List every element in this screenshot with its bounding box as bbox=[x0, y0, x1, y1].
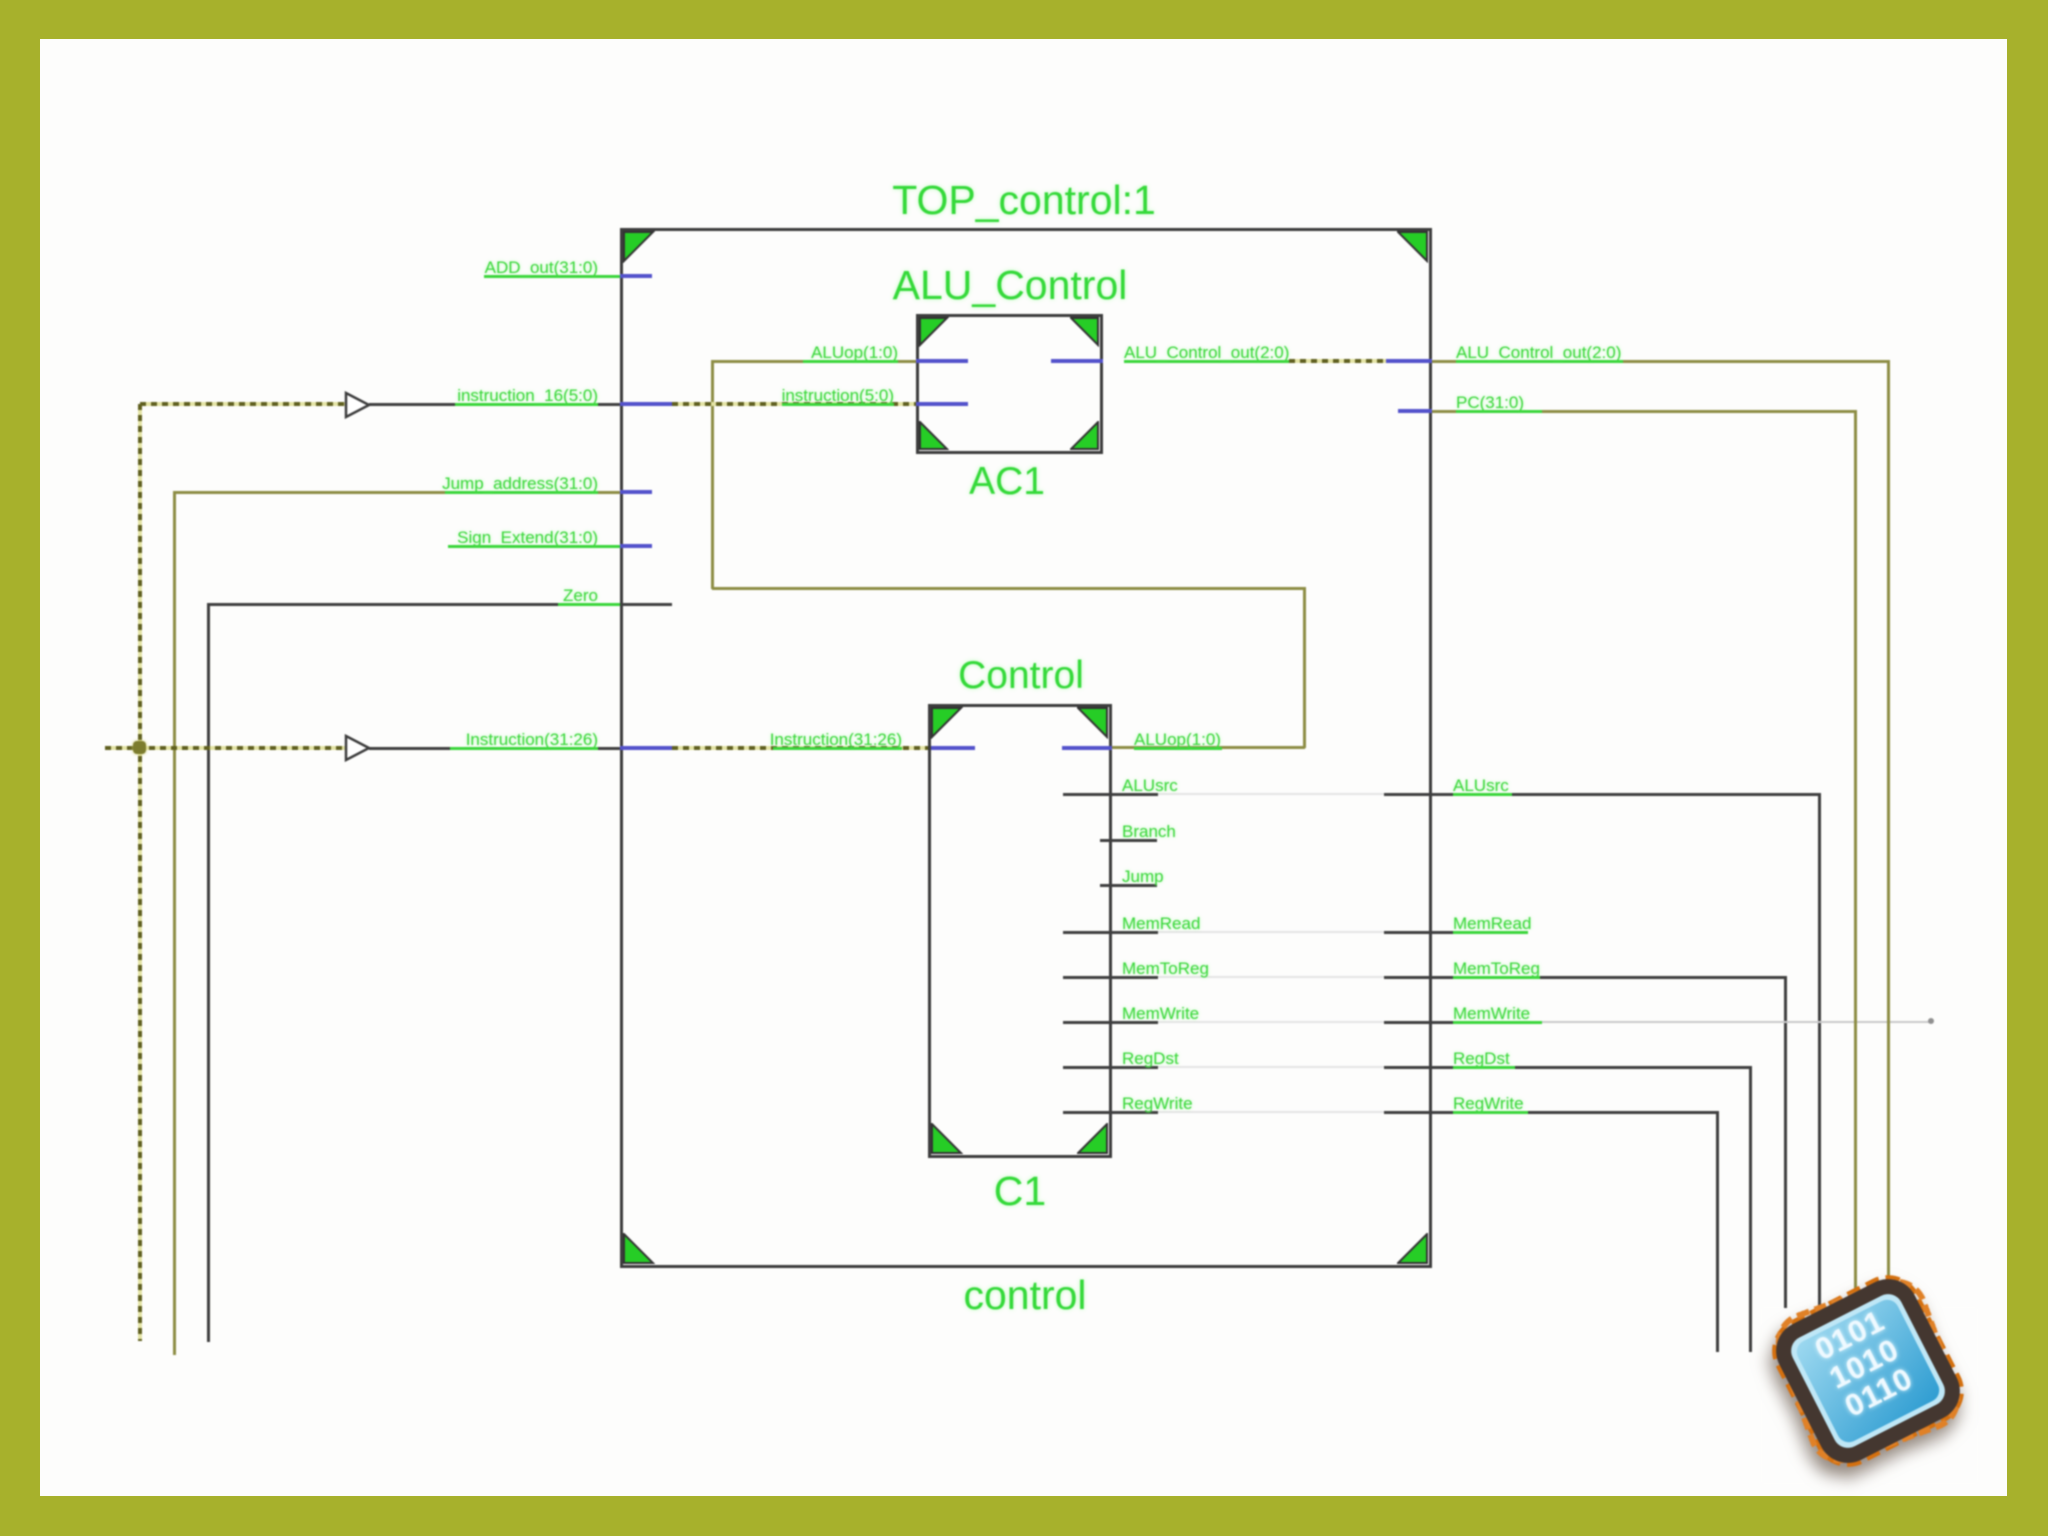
wire ALUop middle horizontal bbox=[712, 587, 1305, 590]
wire ALUop left vertical bbox=[711, 360, 714, 589]
wire Zero horizontal bbox=[207, 603, 620, 606]
net underline Jump_address bbox=[445, 491, 598, 494]
wire ALUop to C1 bbox=[1112, 746, 1305, 749]
label RegWrite at C1 bbox=[1122, 1094, 1193, 1114]
net underline ALUop near AC1 bbox=[803, 360, 898, 363]
wire RegDst vertical drop bbox=[1749, 1066, 1752, 1352]
wire dashed instruction_16 outer bbox=[140, 402, 345, 406]
logo chip bbox=[1770, 1273, 1966, 1469]
corner marker TOP top-right bbox=[1397, 231, 1429, 263]
wire MemRead right stub bbox=[1384, 931, 1477, 934]
pin stub C1 MemToReg bbox=[1063, 976, 1158, 979]
label Sign_Extend(31:0) bbox=[457, 528, 598, 548]
wire Instruction(31:26) outer solid bbox=[369, 747, 620, 750]
wire thin net RegWrite middle bbox=[1158, 1111, 1384, 1113]
corner marker TOP bottom-right bbox=[1397, 1233, 1429, 1265]
wire ALUsrc vertical drop bbox=[1818, 793, 1821, 1315]
label ALUsrc at C1 bbox=[1122, 776, 1178, 796]
wire ALUsrc right run bbox=[1384, 793, 1819, 796]
label Jump at C1 bbox=[1122, 867, 1164, 887]
arrow port Instruction(31:26) bbox=[344, 734, 372, 762]
label ALU_Control_out(2:0) outer bbox=[1456, 343, 1621, 363]
net underline Zero bbox=[558, 603, 620, 606]
wire MemToReg vertical drop bbox=[1784, 976, 1787, 1323]
pin stub C1 Jump bbox=[1100, 884, 1157, 887]
pin blue TOP PC bbox=[1398, 409, 1432, 413]
corner marker AC1 top-right bbox=[1070, 317, 1100, 347]
wire PC outside bbox=[1432, 410, 1856, 413]
pin blue C1 Instruction(31:26) bbox=[931, 746, 975, 750]
arrow port instruction_16 bbox=[344, 391, 372, 419]
net underline Sign_Extend bbox=[448, 545, 620, 548]
pin blue AC1 ALUop bbox=[916, 359, 968, 363]
wire RegDst right run bbox=[1384, 1066, 1750, 1069]
wire ALU_Control_out vertical drop bbox=[1887, 360, 1890, 1310]
wire MemWrite thin extension bbox=[1477, 1021, 1933, 1023]
block Control C1 outline bbox=[928, 704, 1112, 1158]
wire thin net ALUsrc middle bbox=[1158, 793, 1384, 795]
wire dashed ALU_Control_out inner bbox=[1289, 359, 1386, 363]
label MemRead right bbox=[1453, 914, 1531, 934]
label Instruction(31:26) outer bbox=[466, 730, 598, 750]
wire dashed Instruction(31:26) inner bbox=[672, 746, 928, 750]
label ALU_Control_out(2:0) inner bbox=[1124, 343, 1289, 363]
corner marker C1 top-right bbox=[1077, 707, 1109, 739]
pin blue C1 ALUop bbox=[1062, 746, 1112, 750]
title Control bbox=[958, 654, 1084, 698]
label Zero bbox=[563, 586, 598, 606]
wire Zero stub inside TOP bbox=[620, 603, 672, 606]
logo occluder white box bbox=[1762, 1308, 1977, 1483]
wire dashed Instruction outer bbox=[105, 746, 345, 750]
pin stub C1 Branch bbox=[1100, 839, 1157, 842]
wire dashed vertical main bbox=[138, 404, 142, 1341]
wire thin net RegDst middle bbox=[1158, 1066, 1384, 1068]
pin blue TOP ADD_out bbox=[620, 274, 652, 278]
pin stub C1 MemRead bbox=[1063, 931, 1158, 934]
pin stub C1 RegDst bbox=[1063, 1066, 1158, 1069]
net underline PC bbox=[1456, 410, 1542, 413]
corner marker AC1 top-left bbox=[919, 317, 949, 347]
wire Jump_address horizontal bbox=[174, 491, 620, 494]
node MemWrite end dot bbox=[1928, 1018, 1934, 1024]
corner marker C1 bottom-left bbox=[931, 1123, 963, 1155]
net underline ALU_Control_out inner bbox=[1124, 360, 1289, 363]
corner marker C1 bottom-right bbox=[1077, 1123, 1109, 1155]
net underline Instruction outer bbox=[450, 747, 598, 750]
wire ALUop to AC1 bbox=[712, 360, 916, 363]
label control (bottom) bbox=[963, 1272, 1086, 1319]
label MemWrite right bbox=[1453, 1004, 1530, 1024]
label PC(31:0) bbox=[1456, 393, 1524, 413]
pin stub C1 MemWrite bbox=[1063, 1021, 1158, 1024]
wire thin net MemToReg middle bbox=[1158, 976, 1384, 978]
label RegWrite right bbox=[1453, 1094, 1524, 1114]
net underline Instruction inner bbox=[773, 747, 902, 750]
label instruction(5:0) inner bbox=[782, 386, 894, 406]
corner marker AC1 bottom-right bbox=[1070, 421, 1100, 451]
label Jump_address(31:0) bbox=[442, 474, 598, 494]
net underline MemToReg right bbox=[1453, 976, 1540, 979]
title ALU_Control bbox=[893, 262, 1128, 309]
corner marker TOP top-left bbox=[623, 231, 655, 263]
label RegDst right bbox=[1453, 1049, 1510, 1069]
net underline instruction_16 bbox=[455, 403, 598, 406]
wire thin net MemRead middle bbox=[1158, 931, 1384, 933]
label MemToReg right bbox=[1453, 959, 1540, 979]
node junction dot bbox=[133, 741, 146, 754]
pin blue AC1 ALU_Control_out bbox=[1051, 359, 1103, 363]
wire dashed instruction(5:0) inner bbox=[672, 402, 916, 406]
label C1 bbox=[994, 1168, 1046, 1215]
label ALUop(1:0) near C1 bbox=[1134, 730, 1221, 750]
net underline RegDst right bbox=[1453, 1066, 1515, 1069]
pin blue AC1 instruction(5:0) bbox=[916, 402, 968, 406]
label Branch at C1 bbox=[1122, 822, 1176, 842]
wire RegWrite vertical drop bbox=[1716, 1111, 1719, 1352]
wire instruction_16(5:0) outer solid bbox=[369, 403, 620, 406]
wire Zero vertical bbox=[207, 603, 210, 1342]
net underline ALUop near C1 bbox=[1134, 747, 1222, 750]
net underline RegWrite right bbox=[1453, 1111, 1528, 1114]
block ALU_Control AC1 outline bbox=[916, 314, 1103, 454]
pin stub C1 ALUsrc bbox=[1063, 793, 1158, 796]
label RegDst at C1 bbox=[1122, 1049, 1179, 1069]
corner marker C1 top-left bbox=[931, 707, 963, 739]
label MemRead at C1 bbox=[1122, 914, 1200, 934]
label AC1 bbox=[969, 460, 1045, 504]
net underline ALUsrc right bbox=[1453, 793, 1512, 796]
net underline instruction(5:0) inner bbox=[782, 403, 894, 406]
label instruction_16(5:0) bbox=[457, 386, 598, 406]
wire MemWrite right stub bbox=[1384, 1021, 1477, 1024]
corner marker TOP bottom-left bbox=[623, 1233, 655, 1265]
wire thin net MemWrite middle bbox=[1158, 1021, 1384, 1023]
pin blue TOP Jump_address bbox=[620, 490, 652, 494]
label MemWrite at C1 bbox=[1122, 1004, 1199, 1024]
wire ALU_Control_out outside bbox=[1432, 360, 1889, 363]
pin blue TOP ALU_Control_out bbox=[1386, 359, 1432, 363]
net underline MemWrite right bbox=[1453, 1021, 1542, 1024]
net underline ADD_out bbox=[484, 275, 620, 278]
label ADD_out(31:0) bbox=[485, 258, 598, 278]
block TOP_control:1 outline bbox=[620, 228, 1432, 1268]
wire RegWrite right run bbox=[1384, 1111, 1717, 1114]
pin blue TOP Sign_Extend bbox=[620, 544, 652, 548]
pin blue TOP Instruction(31:26) bbox=[620, 746, 672, 750]
wire Jump_address vertical bbox=[173, 491, 176, 1355]
wire MemToReg right run bbox=[1384, 976, 1785, 979]
label MemToReg at C1 bbox=[1122, 959, 1209, 979]
wire ALUop right vertical bbox=[1303, 587, 1306, 748]
net underline MemRead right bbox=[1453, 931, 1528, 934]
label Instruction(31:26) inner bbox=[770, 730, 902, 750]
label ALUsrc right bbox=[1453, 776, 1509, 796]
pin blue TOP instruction_16 bbox=[620, 402, 672, 406]
corner marker AC1 bottom-left bbox=[919, 421, 949, 451]
net underline ALU_Control_out outer bbox=[1456, 360, 1623, 363]
title TOP_control:1 bbox=[892, 177, 1156, 224]
label ALUop(1:0) near AC1 bbox=[811, 343, 898, 363]
wire PC vertical drop bbox=[1854, 410, 1857, 1310]
pin stub C1 RegWrite bbox=[1063, 1111, 1158, 1114]
